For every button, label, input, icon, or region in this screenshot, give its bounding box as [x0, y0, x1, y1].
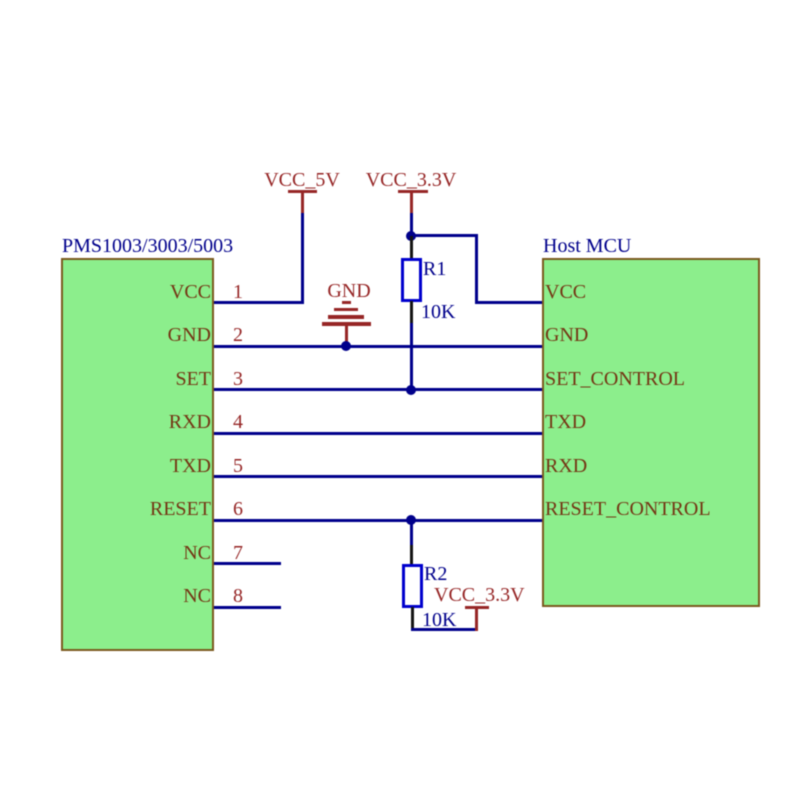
designator R1 — [423, 259, 446, 279]
ground symbol bar1 — [342, 301, 351, 304]
pin label RESET_CONTROL (Host MCU) — [545, 499, 711, 519]
value 10K (R1) — [421, 302, 455, 322]
power symbol VCC_3.3V bar — [398, 190, 428, 193]
power symbol VCC_3.3V bottom bar — [465, 606, 489, 609]
pin wire R1 top — [410, 236, 413, 259]
component box Host MCU — [542, 258, 760, 607]
junction GND node — [341, 341, 351, 351]
pin number 1 — [224, 282, 252, 302]
resistor R1 body — [401, 258, 422, 302]
pin label TXD (left pin 5) — [61, 456, 211, 476]
label Host MCU — [543, 236, 631, 256]
pin wire R1 bottom — [410, 301, 413, 324]
wire R2 to VCC_3.3V — [411, 628, 478, 631]
pin label SET_CONTROL (Host MCU) — [545, 369, 685, 389]
wire pin4 RXD-TXD — [214, 432, 542, 435]
power symbol VCC_3.3V stub — [410, 193, 413, 214]
value 10K (R2) — [422, 610, 456, 630]
pin number 2 — [224, 325, 252, 345]
wire pin5 TXD-RXD — [214, 475, 542, 478]
ground symbol stub — [345, 325, 348, 346]
pin number 6 — [224, 499, 252, 519]
wire pin6 RESET net — [214, 519, 542, 522]
pin number 8 — [224, 586, 252, 606]
ground symbol bar3 — [328, 315, 364, 319]
pin wire R2 top — [410, 545, 413, 565]
power symbol VCC_3.3V bottom stub — [475, 609, 478, 631]
junction R1-SET node — [406, 385, 416, 395]
power symbol VCC_5V stub — [301, 193, 304, 214]
wire pin3 SET net — [214, 388, 542, 391]
wire R1 to SET net — [410, 323, 413, 391]
pin label SET (left pin 3) — [61, 369, 211, 389]
wire RESET net to R2 — [410, 520, 413, 546]
pin label GND (left pin 2) — [61, 325, 211, 345]
junction node A — [406, 231, 416, 241]
wire pin2 GND net — [214, 345, 542, 348]
resistor R2 body — [402, 564, 423, 608]
pin label RESET (left pin 6) — [61, 499, 211, 519]
pin label RXD (Host MCU) — [545, 456, 587, 476]
designator R2 — [424, 564, 447, 584]
wire node A to VCC branch — [410, 234, 478, 237]
wire VCC_5V to pin1 — [301, 213, 304, 304]
component box PMS1003/3003/5003 sensor — [61, 258, 214, 651]
pin label NC (left pin 7) — [61, 543, 211, 563]
pin label VCC (Host MCU) — [545, 282, 586, 302]
net label VCC_3.3V — [361, 170, 461, 190]
label PMS1003/3003/5003 — [62, 236, 233, 256]
wire VCC branch to Host MCU VCC — [475, 301, 543, 304]
pin label VCC (left pin 1) — [61, 282, 211, 302]
net label GND — [299, 281, 399, 301]
wire VCC branch down — [475, 234, 478, 304]
wire VCC_3.3V to node A — [410, 213, 413, 237]
wire pin8 NC stub — [214, 606, 281, 609]
pin number 3 — [224, 369, 252, 389]
pin number 7 — [224, 543, 252, 563]
net label VCC_3.3V (bottom) — [434, 585, 525, 605]
junction R2-RESET node — [406, 515, 416, 525]
wire pin1 VCC — [214, 301, 302, 304]
wire pin7 NC stub — [214, 562, 281, 565]
net label VCC_5V — [252, 170, 352, 190]
power symbol VCC_5V bar — [288, 190, 317, 193]
pin label GND (Host MCU) — [545, 325, 588, 345]
pin label RXD (left pin 4) — [61, 412, 211, 432]
ground symbol bar2 — [334, 308, 358, 311]
ground symbol bar4 — [322, 322, 371, 326]
pin label TXD (Host MCU) — [545, 412, 586, 432]
pin wire R2 bottom — [411, 607, 414, 629]
pin label NC (left pin 8) — [61, 586, 211, 606]
pin number 5 — [224, 456, 252, 476]
pin number 4 — [224, 412, 252, 432]
